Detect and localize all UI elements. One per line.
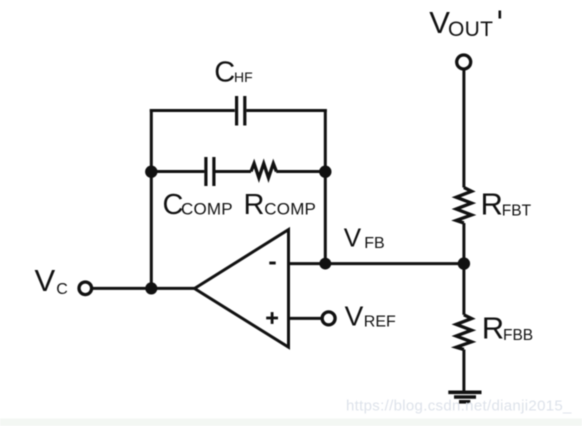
wire comp branch middle	[216, 170, 252, 173]
svg-text:HF: HF	[234, 69, 253, 85]
wire inverting input to node	[289, 262, 465, 265]
label Vc	[35, 263, 68, 298]
svg-text:V: V	[345, 300, 364, 331]
terminal Vref	[322, 312, 335, 325]
terminal Vc	[79, 282, 92, 295]
svg-text:COMP: COMP	[181, 199, 233, 218]
capacitor CCOMP	[206, 157, 214, 186]
label VREF	[345, 300, 396, 331]
svg-text:R: R	[481, 187, 503, 222]
resistor RCOMP	[251, 164, 276, 178]
svg-text:R: R	[244, 189, 265, 221]
node dot comp-right junction	[319, 166, 331, 178]
op-amp minus sign	[269, 262, 275, 265]
label RCOMP	[244, 189, 317, 221]
wire top branch left	[150, 109, 235, 112]
capacitor CHF	[237, 96, 245, 126]
svg-text:OUT: OUT	[448, 18, 493, 41]
wire Vc output line	[92, 287, 197, 290]
wire noninverting input	[289, 317, 323, 320]
label CCOMP	[163, 189, 233, 221]
svg-text:C: C	[214, 57, 235, 89]
node dot Vc junction	[145, 282, 157, 294]
svg-text:COMP: COMP	[264, 199, 316, 218]
wire comp branch right	[276, 170, 325, 173]
svg-text:V: V	[35, 263, 56, 298]
terminal Vout	[457, 55, 471, 69]
op-amp plus sign	[266, 312, 278, 324]
wire right feedback vertical	[324, 109, 327, 264]
resistor RFBT	[456, 188, 471, 224]
svg-text:FBT: FBT	[502, 203, 532, 220]
ground	[448, 392, 481, 402]
svg-text:V: V	[344, 223, 362, 253]
node dot divider junction	[458, 257, 470, 269]
wire left feedback vertical	[150, 109, 153, 288]
label RFBB	[482, 311, 533, 346]
svg-text:REF: REF	[364, 313, 396, 330]
label VOUT'	[429, 5, 500, 41]
label VFB	[344, 223, 385, 253]
svg-text:R: R	[482, 311, 504, 346]
wire node to RFBB	[462, 264, 465, 315]
wire RFBB to ground	[462, 350, 465, 393]
wire top branch right	[246, 109, 326, 112]
node dot VFB junction	[319, 258, 331, 270]
svg-text:FB: FB	[364, 235, 384, 252]
wire RFBT to node	[462, 223, 465, 264]
label CHF	[214, 57, 252, 89]
wire Vout vertical	[462, 69, 465, 188]
node dot comp-left junction	[145, 166, 157, 178]
svg-text:C: C	[56, 281, 68, 298]
wire comp branch left	[151, 170, 204, 173]
resistor RFBB	[456, 315, 471, 350]
svg-text:FBB: FBB	[503, 327, 533, 344]
bottom strip	[0, 419, 582, 426]
op-amp U1	[195, 230, 289, 348]
label RFBT	[481, 187, 532, 222]
svg-text:https://blog.csdn.net/dianji20: https://blog.csdn.net/dianji2015_	[346, 398, 572, 415]
